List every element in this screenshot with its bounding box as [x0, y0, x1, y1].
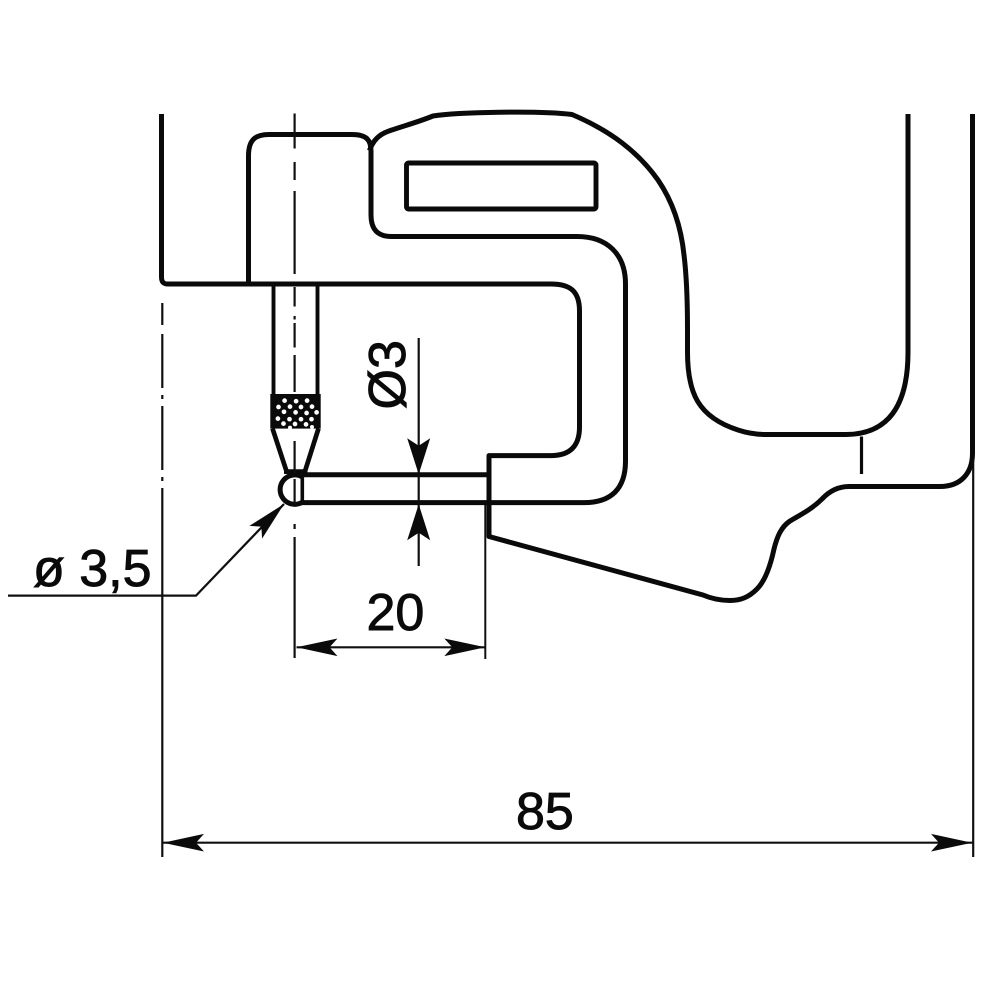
svg-text:ø 3,5: ø 3,5 [33, 540, 152, 598]
svg-text:20: 20 [367, 584, 425, 642]
svg-text:85: 85 [516, 783, 574, 841]
svg-text:Ø3: Ø3 [359, 340, 417, 409]
